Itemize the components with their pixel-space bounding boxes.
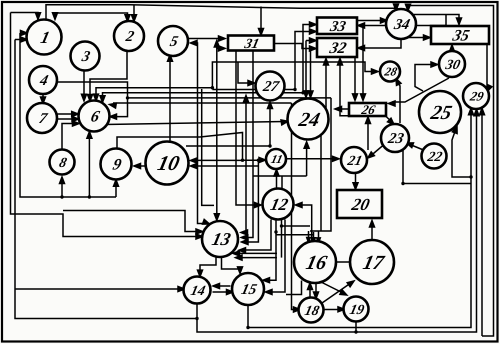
block 22 (circle): [422, 144, 447, 169]
wire block 13 to block 14: [198, 257, 217, 277]
wire block 16 to block 17: [337, 261, 350, 263]
wire block 26 left to riser: [335, 107, 349, 112]
wire branch up into block 9: [114, 180, 119, 197]
wire block 18 to block 19: [324, 307, 345, 312]
block 29 (circle): [463, 83, 489, 109]
block 5 (circle): [158, 26, 188, 56]
block 15 (circle): [232, 273, 264, 305]
wire into block 13 lower right 1: [233, 251, 277, 256]
wire branch down to block 27: [238, 62, 255, 86]
wire block 4 to block 7: [41, 94, 46, 104]
block 2 (circle): [114, 21, 144, 51]
wire block 34 to block 32 right: [358, 39, 401, 51]
block 34 (circle): [386, 9, 416, 39]
block 12 (circle): [263, 189, 294, 220]
wire block 26 up to block 32: [338, 59, 351, 116]
wire bus riser into block 33 lower: [295, 29, 316, 90]
wire block 5 to block 31: [188, 36, 225, 41]
wire bus to block 6 bottom: [87, 132, 92, 197]
wire bus riser into block 33 upper: [303, 22, 316, 93]
wire block 2 to block 6: [88, 46, 128, 102]
wire riser into block 13 top: [214, 41, 219, 221]
block 13 (circle): [202, 221, 238, 257]
block 4 (circle): [29, 66, 57, 94]
wire branch down into block 31: [259, 7, 264, 36]
block 24 (circle): [288, 99, 329, 140]
wire block 14 to block 15: [213, 290, 234, 295]
wire into block 10 right upper: [191, 158, 243, 163]
wire into block 6 right: [110, 98, 128, 119]
block 19 (circle): [344, 297, 369, 322]
wire jog to block 13 left: [63, 211, 203, 235]
wire left bus to block 13 upper: [11, 13, 203, 240]
long line from block 9 down to block 11: [117, 133, 266, 163]
bus line end into block 27: [257, 90, 304, 95]
wire block 18 to block 17: [322, 281, 354, 303]
wire left bus into block 1 upper: [20, 31, 116, 198]
wire block 32 down to block 26: [353, 58, 358, 101]
wire into block 12 left: [236, 51, 261, 208]
wire bundle branch to hook b: [276, 234, 314, 236]
wire block 16 to block 18: [314, 282, 319, 299]
wire from block 1 top to block 34: [46, 4, 399, 20]
wire into block 1 top left: [11, 13, 41, 20]
wire block 21 to block 26: [366, 117, 371, 150]
wire bottom bus B to block 29: [197, 109, 479, 332]
block 25 (circle): [419, 91, 461, 133]
wire block 26 to block 23: [385, 116, 394, 125]
wire into block 13 right 1: [241, 96, 249, 236]
wire block 16 to block 12: [296, 203, 312, 242]
block 28 (circle): [380, 62, 400, 82]
wire block 18 to block 16: [308, 283, 313, 298]
wire block 15 to block 14: [213, 284, 231, 289]
wire block 19 to bottom bus: [355, 322, 357, 333]
block 26 (rectangle): [349, 102, 386, 117]
wire block 12 to block 13: [239, 220, 271, 253]
wire block 4 to block 6 via jog: [57, 82, 128, 98]
wire down to block 16 top: [310, 98, 331, 231]
wire into block 13 right 3: [242, 160, 259, 244]
block 17 (circle): [350, 240, 394, 284]
block 32 (rectangle): [317, 38, 357, 57]
block 3 (circle): [71, 42, 100, 71]
wire bus up and right: [212, 62, 378, 88]
wire block 31 to block 32: [274, 44, 316, 52]
wire up into block 24 bottom: [253, 142, 309, 176]
bus line into block 6 top: [94, 88, 213, 101]
wire block 13 to block 15: [222, 257, 243, 274]
wire block 23 to block 21: [368, 145, 384, 158]
block 8 (circle): [50, 150, 75, 175]
wire block 12 bundle to block 15 lower: [266, 220, 286, 295]
wire bundle branch to hook a: [282, 225, 311, 227]
wire into block 14 left: [120, 287, 185, 292]
block 23 (circle): [381, 124, 409, 152]
wire block 7 to block 6 lower: [57, 117, 79, 122]
wire branch up into block 8: [60, 177, 65, 197]
wire block 8 to block 6: [62, 121, 79, 150]
wire down then to block 18: [292, 103, 301, 312]
wire hook into block 16 b: [312, 232, 316, 243]
wire pair down to riser: [202, 89, 214, 205]
wire block 10 to block 27: [186, 102, 273, 146]
block 7 (circle): [27, 103, 57, 133]
wire block 12 to block 11: [274, 170, 279, 189]
wire bus branch into block 25: [452, 127, 471, 178]
block 35 (rectangle): [431, 26, 489, 44]
wire block 23 down to right bus: [403, 150, 471, 184]
wire jog down to block 24: [308, 49, 313, 98]
block 21 (circle): [341, 147, 367, 173]
wire from block 13 area up into block 5: [191, 41, 210, 225]
block 20 (rectangle): [337, 190, 382, 218]
wire block 31 down to block 13 right: [241, 51, 253, 241]
block 10 (circle): [146, 142, 189, 185]
block 6 (circle): [79, 101, 110, 132]
wire hook into block 16 a: [307, 231, 311, 243]
wire block 10 to block 9: [134, 164, 146, 169]
wire block 12 down to block 15 upper: [263, 220, 276, 283]
bus line y89 left part: [212, 89, 295, 91]
wire block 21 to block 20: [353, 173, 358, 189]
wire into block 32 left upper: [304, 38, 317, 97]
wire into block 13 lower right 2: [236, 255, 278, 260]
wire block 24 to block 32: [324, 59, 329, 111]
block 1 (circle): [27, 20, 62, 55]
wire block 16 to block 19: [320, 282, 347, 296]
block 11 (circle): [266, 149, 286, 169]
wire into block 10 right lower: [191, 164, 259, 169]
block 31 (rectangle): [228, 36, 274, 52]
block 33 (rectangle): [317, 18, 357, 35]
wire into block 31 left lower: [217, 46, 225, 51]
wire block 6 to block 24: [104, 120, 288, 125]
wire block 12 top to jog line: [281, 176, 283, 189]
wire block 33 to block 34: [357, 18, 387, 23]
wire between blocks 1 and 2 tops: [53, 13, 131, 21]
wire block 30 to block 35: [450, 45, 455, 52]
wire block 7 to block 6 upper: [57, 112, 79, 117]
wire left bus into block 1 lower: [15, 37, 196, 319]
wire block 34 to block 35 top: [411, 15, 462, 25]
wire long line into block 14: [15, 288, 120, 290]
wire block 11 to block 21: [286, 156, 339, 161]
wire block 10 to block 5: [168, 55, 173, 142]
wire third riser into block 29: [480, 108, 485, 336]
block 30 (circle): [439, 51, 465, 77]
wire block 24 down to junction: [320, 135, 322, 231]
wire block 12 bundle line: [281, 220, 283, 258]
wire from block 35 down to block 29 top: [487, 45, 492, 92]
wire from block 34 top to right edge: [406, 4, 494, 336]
wire block 23 to block 28: [396, 79, 401, 124]
wire block 30 to block 26: [389, 78, 450, 106]
wire block 17 to block 20: [370, 221, 375, 241]
bus line y103 into block 6: [110, 103, 292, 108]
wire from block 33 area down into block 26: [361, 26, 366, 101]
block 9 (circle): [101, 149, 132, 180]
bus line into block 6 upper right: [100, 93, 303, 102]
wire into block 33 right: [358, 15, 446, 29]
block 18 (circle): [299, 298, 324, 323]
bus line y98: [128, 97, 332, 99]
wire bottom bus A to block 29: [248, 108, 474, 327]
block 14 (circle): [184, 277, 211, 304]
block 27 (circle): [256, 72, 285, 101]
wire block 34 to block 35 left: [402, 35, 430, 40]
wire hook into block 16 c: [317, 231, 321, 243]
wire block 25 to block 30: [415, 62, 438, 91]
block 16 (circle): [294, 241, 336, 283]
wire branch down into block 2: [132, 5, 137, 21]
wire block 22 to block 23: [407, 143, 424, 150]
wire block 3 to block 6: [82, 71, 87, 101]
wire block 16 bottom left link: [286, 281, 302, 295]
